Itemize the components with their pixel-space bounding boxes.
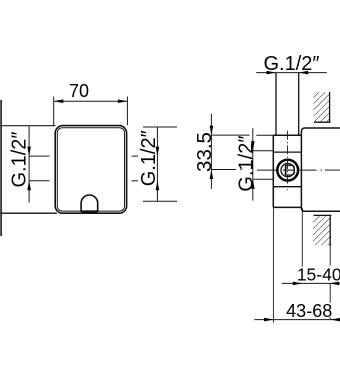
svg-text:G.1/2″: G.1/2″ xyxy=(264,53,320,75)
svg-text:G.1/2″: G.1/2″ xyxy=(9,132,31,188)
svg-text:15-40: 15-40 xyxy=(297,264,340,284)
svg-text:G.1/2″: G.1/2″ xyxy=(138,130,160,186)
svg-text:33.5: 33.5 xyxy=(193,132,216,172)
svg-text:70: 70 xyxy=(69,81,89,101)
svg-text:43-68: 43-68 xyxy=(286,301,332,321)
svg-text:G.1/2″: G.1/2″ xyxy=(235,136,257,192)
